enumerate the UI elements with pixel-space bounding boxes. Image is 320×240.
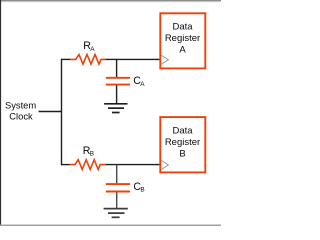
svg-text:A: A: [90, 46, 95, 53]
svg-text:B: B: [179, 149, 185, 160]
svg-text:B: B: [140, 187, 144, 194]
svg-text:B: B: [90, 151, 94, 158]
svg-text:Register: Register: [165, 137, 200, 148]
svg-text:Register: Register: [165, 33, 200, 44]
svg-text:Data: Data: [172, 125, 193, 136]
svg-text:Data: Data: [172, 21, 193, 32]
svg-text:A: A: [140, 81, 145, 88]
svg-text:System: System: [5, 99, 36, 110]
svg-text:Clock: Clock: [9, 110, 33, 121]
svg-text:A: A: [179, 45, 186, 56]
